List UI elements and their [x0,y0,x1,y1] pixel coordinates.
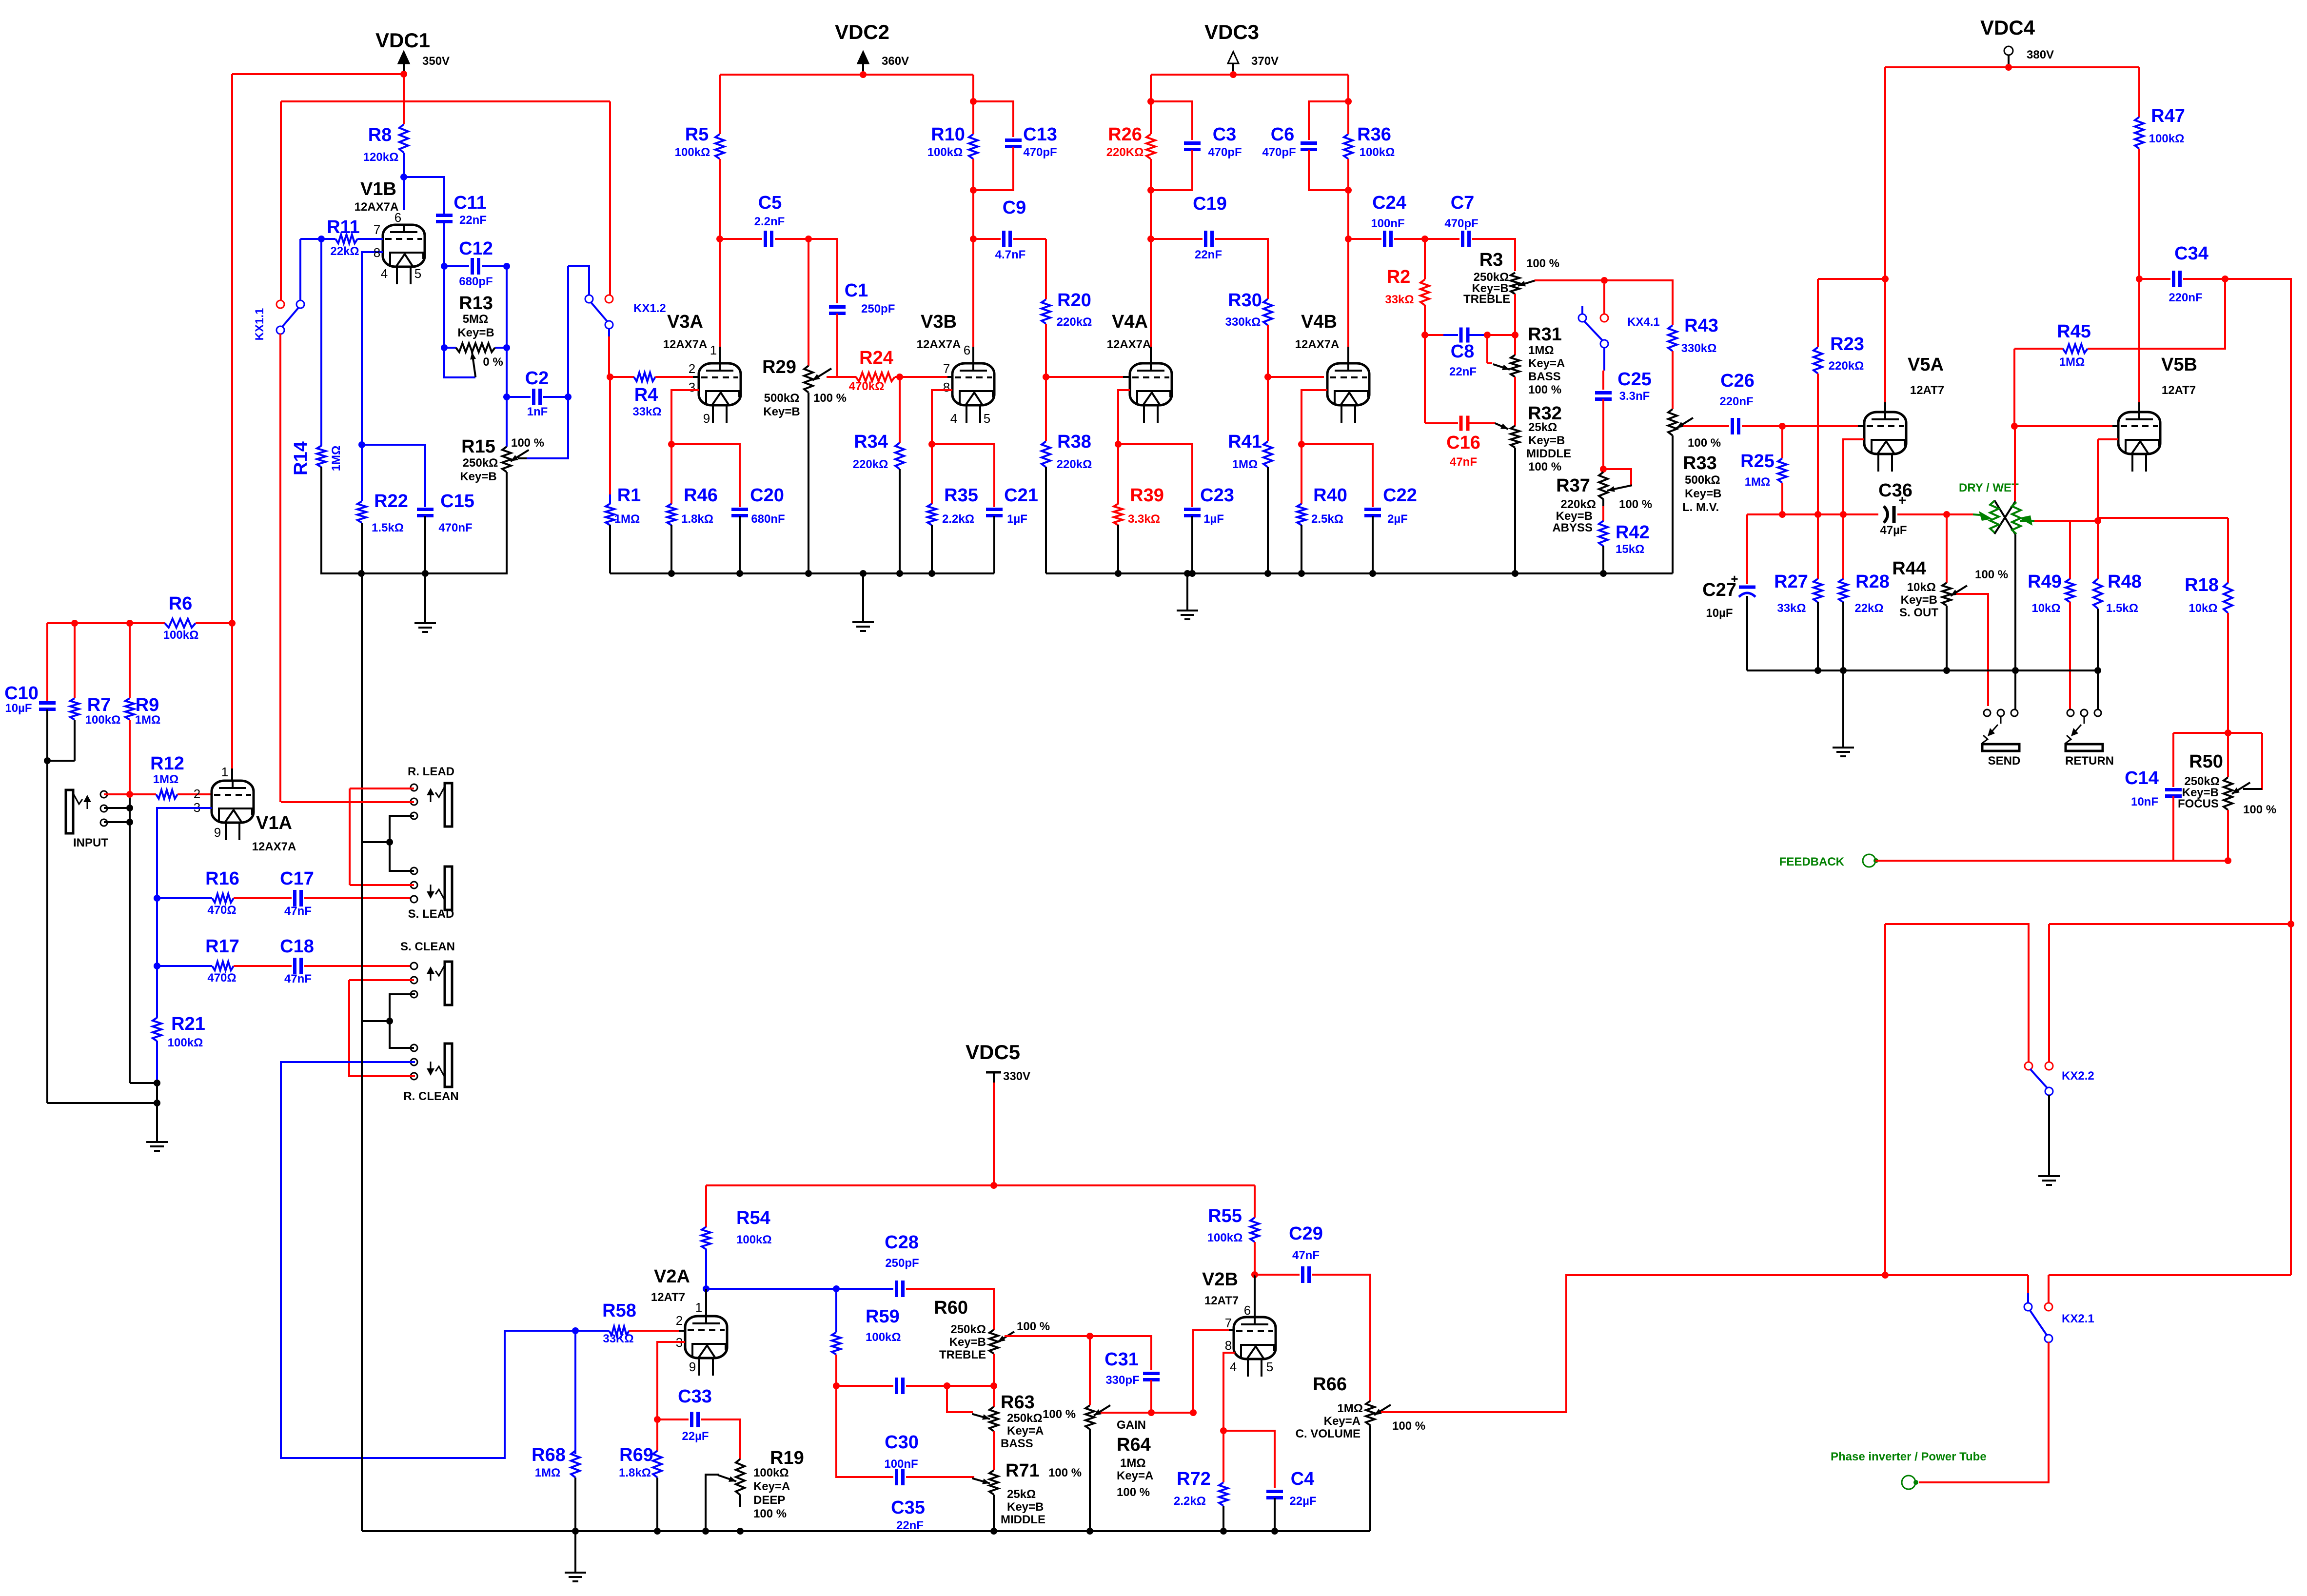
svg-text:C8: C8 [1451,341,1475,362]
svg-text:2: 2 [194,787,200,801]
svg-text:22nF: 22nF [459,214,487,227]
svg-text:100 %: 100 % [1528,460,1561,473]
svg-text:8: 8 [1225,1338,1232,1353]
svg-text:12AT7: 12AT7 [1910,384,1944,397]
svg-text:100 %: 100 % [511,436,544,450]
svg-text:MIDDLE: MIDDLE [1001,1513,1045,1526]
svg-text:100 %: 100 % [2243,803,2276,816]
svg-text:R49: R49 [2028,571,2062,592]
svg-text:DEEP: DEEP [753,1494,785,1507]
svg-text:C23: C23 [1200,485,1234,506]
svg-text:R45: R45 [2057,321,2091,342]
svg-text:220kΩ: 220kΩ [1057,315,1092,329]
svg-text:V4A: V4A [1112,312,1148,332]
svg-text:4.7nF: 4.7nF [995,248,1026,261]
svg-text:C26: C26 [1720,371,1755,391]
svg-text:RETURN: RETURN [2065,754,2114,768]
svg-text:Key=B: Key=B [949,1336,986,1349]
svg-text:220kΩ: 220kΩ [1829,359,1864,373]
svg-text:2: 2 [689,361,695,376]
svg-text:KX1.1: KX1.1 [253,308,266,341]
svg-text:470kΩ: 470kΩ [849,380,885,393]
svg-text:R30: R30 [1228,290,1262,311]
svg-text:470pF: 470pF [1262,146,1296,159]
svg-text:V1B: V1B [360,179,396,199]
svg-text:MIDDLE: MIDDLE [1526,447,1571,460]
svg-text:100 %: 100 % [1117,1486,1150,1499]
svg-text:C18: C18 [280,936,314,957]
svg-text:10kΩ: 10kΩ [2031,602,2060,615]
svg-text:6: 6 [964,343,970,357]
svg-text:5MΩ: 5MΩ [463,313,489,326]
svg-text:R. CLEAN: R. CLEAN [403,1090,458,1103]
svg-text:KX4.1: KX4.1 [1627,315,1660,329]
svg-text:L. M.V.: L. M.V. [1682,501,1719,514]
svg-text:22kΩ: 22kΩ [330,245,359,258]
svg-text:Key=B: Key=B [1007,1500,1044,1514]
svg-text:FOCUS: FOCUS [2178,797,2219,810]
svg-text:500kΩ: 500kΩ [1685,473,1720,487]
svg-text:1MΩ: 1MΩ [153,773,179,786]
svg-text:R11: R11 [327,217,360,237]
svg-text:5: 5 [1266,1360,1273,1374]
svg-text:100 %: 100 % [1392,1419,1425,1433]
svg-text:C30: C30 [885,1432,919,1453]
svg-text:100 %: 100 % [1619,498,1652,511]
svg-text:VDC4: VDC4 [1980,16,2035,39]
svg-text:100 %: 100 % [1528,383,1561,396]
svg-text:R27: R27 [1774,571,1808,592]
svg-text:12AX7A: 12AX7A [252,840,296,853]
svg-text:SEND: SEND [1988,754,2021,768]
svg-text:220nF: 220nF [2169,291,2202,304]
svg-text:100kΩ: 100kΩ [168,1036,203,1049]
svg-text:C13: C13 [1023,124,1057,145]
svg-text:C19: C19 [1193,194,1227,214]
svg-text:R10: R10 [931,124,965,145]
svg-text:330V: 330V [1003,1070,1030,1083]
svg-text:100 %: 100 % [1688,436,1721,450]
svg-text:9: 9 [703,411,710,426]
svg-text:V5A: V5A [1908,355,1944,375]
svg-text:V2A: V2A [654,1266,690,1287]
svg-text:12AX7A: 12AX7A [1107,338,1151,351]
svg-text:12AX7A: 12AX7A [663,338,708,351]
svg-text:C24: C24 [1372,193,1406,213]
svg-text:C33: C33 [678,1386,712,1407]
svg-text:2.5kΩ: 2.5kΩ [1311,512,1343,526]
svg-text:1MΩ: 1MΩ [135,713,161,727]
svg-text:KX1.2: KX1.2 [633,302,666,315]
svg-text:R9: R9 [136,695,159,715]
svg-text:C36: C36 [1878,480,1913,501]
svg-text:TREBLE: TREBLE [939,1348,986,1361]
svg-text:100 %: 100 % [1043,1408,1076,1421]
svg-text:C11: C11 [454,193,487,213]
svg-text:1nF: 1nF [527,405,548,418]
svg-text:R48: R48 [2108,571,2142,592]
svg-text:C20: C20 [750,485,784,506]
svg-text:V3A: V3A [667,312,703,332]
svg-text:C6: C6 [1271,124,1295,145]
svg-text:10nF: 10nF [2131,795,2158,808]
svg-text:R6: R6 [169,593,193,614]
svg-text:100kΩ: 100kΩ [1360,146,1395,159]
svg-text:380V: 380V [2027,48,2054,61]
svg-text:R44: R44 [1892,558,1926,579]
svg-text:R1: R1 [617,485,641,506]
svg-text:250kΩ: 250kΩ [1007,1412,1043,1425]
svg-text:47nF: 47nF [284,972,312,985]
svg-text:VDC2: VDC2 [835,20,889,43]
svg-text:47nF: 47nF [1450,455,1477,469]
svg-text:Key=B: Key=B [460,470,496,483]
svg-text:R33: R33 [1683,453,1717,473]
svg-text:R7: R7 [87,695,111,715]
svg-text:R. LEAD: R. LEAD [408,765,454,778]
svg-text:8: 8 [943,380,950,394]
svg-text:Key=B: Key=B [457,326,494,339]
svg-text:R42: R42 [1616,522,1650,543]
svg-text:350V: 350V [422,55,450,68]
svg-text:33kΩ: 33kΩ [632,405,661,418]
svg-text:R68: R68 [532,1445,566,1465]
svg-text:C7: C7 [1451,193,1475,213]
svg-text:680pF: 680pF [459,275,493,288]
svg-text:R46: R46 [684,485,718,506]
svg-text:C29: C29 [1289,1223,1323,1244]
svg-text:7: 7 [943,361,950,376]
svg-text:220nF: 220nF [1719,395,1753,408]
svg-text:12AT7: 12AT7 [1204,1294,1239,1307]
svg-text:Key=B: Key=B [1901,593,1937,607]
svg-text:R8: R8 [368,125,392,145]
svg-text:R23: R23 [1830,334,1864,355]
svg-text:BASS: BASS [1528,370,1561,383]
svg-text:R21: R21 [171,1014,205,1034]
svg-text:33kΩ: 33kΩ [1385,293,1414,306]
svg-text:FEEDBACK: FEEDBACK [1779,855,1845,868]
svg-text:VDC3: VDC3 [1204,20,1259,43]
svg-text:470nF: 470nF [438,521,472,534]
svg-text:100 %: 100 % [1017,1320,1050,1333]
svg-text:C14: C14 [2125,768,2159,788]
svg-text:33KΩ: 33KΩ [603,1332,633,1345]
svg-text:R36: R36 [1357,124,1391,145]
svg-text:250pF: 250pF [861,302,895,315]
svg-text:C28: C28 [885,1232,919,1253]
svg-text:C31: C31 [1104,1349,1139,1370]
svg-text:47µF: 47µF [1880,524,1907,537]
svg-text:100kΩ: 100kΩ [675,146,710,159]
svg-text:Key=A: Key=A [753,1480,790,1493]
svg-text:TREBLE: TREBLE [1463,293,1510,306]
svg-text:5: 5 [984,411,990,426]
svg-text:100kΩ: 100kΩ [736,1233,772,1246]
svg-text:R2: R2 [1387,267,1411,287]
svg-text:R40: R40 [1313,485,1347,506]
svg-text:R60: R60 [934,1298,968,1318]
svg-text:R59: R59 [866,1306,900,1327]
svg-text:9: 9 [689,1360,696,1374]
svg-text:Key=B: Key=B [1556,510,1593,523]
svg-text:R63: R63 [1001,1392,1035,1413]
svg-text:2µF: 2µF [1387,512,1408,526]
svg-text:1: 1 [695,1300,702,1315]
svg-text:12AX7A: 12AX7A [1295,338,1340,351]
svg-text:KX2.2: KX2.2 [2062,1069,2094,1083]
svg-text:22nF: 22nF [1449,365,1477,378]
svg-text:100kΩ: 100kΩ [163,629,199,642]
svg-text:R14: R14 [291,441,311,475]
svg-text:R43: R43 [1684,315,1718,336]
svg-text:C34: C34 [2174,243,2208,264]
svg-text:KX2.1: KX2.1 [2062,1312,2094,1325]
svg-text:Phase inverter / Power Tube: Phase inverter / Power Tube [1831,1450,1987,1463]
svg-text:100kΩ: 100kΩ [85,713,121,727]
svg-text:100 %: 100 % [1048,1466,1082,1479]
svg-text:100 %: 100 % [1975,568,2008,581]
svg-text:R28: R28 [1855,571,1890,592]
svg-text:250kΩ: 250kΩ [463,456,498,470]
svg-text:330kΩ: 330kΩ [1225,315,1261,329]
svg-text:C1: C1 [845,280,868,301]
svg-text:12AT7: 12AT7 [651,1291,685,1304]
svg-text:R4: R4 [634,385,658,405]
svg-text:470pF: 470pF [1208,146,1242,159]
svg-text:1.8kΩ: 1.8kΩ [681,512,713,526]
svg-text:C9: C9 [1003,197,1026,218]
svg-text:470Ω: 470Ω [207,971,236,985]
svg-text:1µF: 1µF [1203,512,1224,526]
svg-text:0 %: 0 % [483,355,503,369]
svg-text:1MΩ: 1MΩ [2059,355,2085,369]
svg-text:C12: C12 [459,238,493,259]
svg-text:4: 4 [950,411,957,426]
svg-text:R38: R38 [1057,432,1091,452]
svg-text:V3B: V3B [921,312,957,332]
svg-text:C5: C5 [758,193,782,213]
svg-text:500kΩ: 500kΩ [764,392,800,405]
svg-text:C22: C22 [1383,485,1417,506]
svg-text:DRY / WET: DRY / WET [1959,481,2019,494]
svg-text:R37: R37 [1556,475,1590,496]
svg-text:100nF: 100nF [1371,217,1404,230]
svg-text:1µF: 1µF [1007,512,1027,526]
svg-text:1MΩ: 1MΩ [330,446,343,472]
svg-text:7: 7 [1225,1316,1232,1330]
svg-text:Key=A: Key=A [1324,1415,1361,1428]
svg-text:R71: R71 [1006,1460,1040,1481]
svg-text:100 %: 100 % [813,392,847,405]
svg-text:1MΩ: 1MΩ [1745,475,1771,489]
svg-text:R66: R66 [1313,1374,1347,1395]
svg-text:12AX7A: 12AX7A [355,200,399,214]
svg-text:C4: C4 [1291,1469,1315,1489]
svg-text:4: 4 [1230,1360,1237,1374]
svg-text:6: 6 [1244,1303,1251,1318]
svg-text:250pF: 250pF [885,1257,919,1270]
svg-text:Key=A: Key=A [1007,1424,1044,1438]
svg-text:120kΩ: 120kΩ [363,151,399,164]
svg-text:C35: C35 [891,1497,925,1518]
svg-text:100 %: 100 % [1526,257,1559,270]
svg-text:R18: R18 [2185,575,2219,595]
svg-text:R39: R39 [1130,485,1164,506]
svg-text:R41: R41 [1228,432,1262,452]
svg-text:C10: C10 [4,683,39,704]
svg-text:250kΩ: 250kΩ [950,1323,986,1336]
svg-text:2.2kΩ: 2.2kΩ [1174,1495,1206,1508]
svg-text:10µF: 10µF [5,702,32,715]
svg-text:1: 1 [710,343,717,357]
svg-text:R47: R47 [2151,106,2185,126]
svg-text:360V: 360V [882,55,909,68]
svg-text:C16: C16 [1446,433,1480,453]
svg-text:470Ω: 470Ω [207,904,236,917]
svg-text:1MΩ: 1MΩ [535,1466,561,1479]
svg-text:Key=B: Key=B [763,405,800,418]
svg-text:10kΩ: 10kΩ [2189,602,2217,615]
svg-text:R69: R69 [619,1445,653,1465]
svg-text:R19: R19 [770,1448,804,1468]
svg-text:R22: R22 [374,491,408,512]
svg-text:VDC5: VDC5 [966,1041,1020,1064]
svg-text:10kΩ: 10kΩ [1907,581,1936,594]
svg-text:R12: R12 [150,753,184,774]
svg-text:47nF: 47nF [1292,1249,1320,1262]
svg-text:V5B: V5B [2161,355,2197,375]
svg-text:220kΩ: 220kΩ [1057,458,1092,471]
svg-text:680nF: 680nF [751,512,785,526]
svg-text:100 %: 100 % [753,1507,787,1520]
svg-text:C. VOLUME: C. VOLUME [1296,1427,1361,1440]
svg-text:9: 9 [214,825,221,840]
svg-text:1MΩ: 1MΩ [1232,458,1258,471]
svg-text:R17: R17 [205,936,239,957]
svg-text:25kΩ: 25kΩ [1528,421,1557,434]
svg-text:2: 2 [676,1313,683,1328]
svg-text:100kΩ: 100kΩ [2149,132,2185,145]
svg-text:BASS: BASS [1001,1437,1033,1450]
svg-text:22nF: 22nF [1195,248,1222,261]
svg-text:R31: R31 [1528,324,1562,345]
svg-text:R64: R64 [1117,1435,1151,1455]
svg-text:100kΩ: 100kΩ [753,1466,789,1479]
svg-text:22kΩ: 22kΩ [1854,602,1883,615]
svg-text:R55: R55 [1208,1206,1242,1226]
svg-text:6: 6 [394,210,401,225]
svg-text:C17: C17 [280,868,314,889]
svg-text:R72: R72 [1177,1469,1211,1489]
svg-text:V4B: V4B [1301,312,1337,332]
svg-text:Key=A: Key=A [1528,357,1565,370]
svg-text:S. LEAD: S. LEAD [408,907,454,921]
svg-text:R13: R13 [459,293,493,314]
svg-text:R26: R26 [1108,124,1142,145]
svg-text:470pF: 470pF [1444,217,1478,230]
svg-text:33kΩ: 33kΩ [1777,602,1806,615]
svg-text:R20: R20 [1057,290,1091,311]
svg-text:25kΩ: 25kΩ [1007,1488,1036,1501]
svg-text:3: 3 [689,380,695,394]
svg-text:22nF: 22nF [896,1519,924,1532]
svg-text:12AT7: 12AT7 [2162,384,2196,397]
svg-text:22µF: 22µF [1289,1495,1316,1508]
svg-text:330kΩ: 330kΩ [1681,342,1717,355]
svg-text:15kΩ: 15kΩ [1616,543,1644,556]
svg-text:R25: R25 [1740,451,1775,472]
svg-text:C15: C15 [440,491,474,512]
svg-text:R50: R50 [2189,751,2223,772]
svg-text:R24: R24 [859,348,893,368]
svg-text:C27: C27 [1702,580,1736,600]
svg-text:47nF: 47nF [284,905,312,918]
svg-text:V2B: V2B [1202,1269,1238,1290]
svg-text:ABYSS: ABYSS [1552,521,1593,534]
svg-text:1MΩ: 1MΩ [1528,344,1554,357]
svg-text:2.2nF: 2.2nF [754,215,785,228]
svg-text:8: 8 [374,245,380,260]
svg-text:Key=B: Key=B [1685,487,1721,500]
svg-text:1MΩ: 1MΩ [614,512,640,526]
svg-text:C3: C3 [1213,124,1237,145]
svg-text:Key=B: Key=B [1528,434,1565,447]
svg-text:1MΩ: 1MΩ [1337,1402,1363,1415]
svg-text:R16: R16 [205,868,239,889]
svg-text:100kΩ: 100kΩ [866,1331,901,1344]
svg-text:C2: C2 [525,368,549,389]
svg-text:1.8kΩ: 1.8kΩ [619,1466,651,1479]
svg-text:C25: C25 [1617,369,1652,390]
svg-text:12AX7A: 12AX7A [917,338,961,351]
svg-text:5: 5 [414,266,421,281]
svg-text:3.3nF: 3.3nF [1619,390,1650,403]
svg-text:1MΩ: 1MΩ [1120,1457,1146,1470]
svg-text:S. CLEAN: S. CLEAN [400,940,455,953]
svg-text:S. OUT: S. OUT [1899,606,1938,619]
svg-text:V1A: V1A [256,813,292,833]
svg-text:370V: 370V [1251,55,1279,68]
svg-text:1.5kΩ: 1.5kΩ [2106,602,2138,615]
svg-text:R29: R29 [762,357,796,377]
svg-text:Key=A: Key=A [1117,1469,1153,1482]
svg-text:C21: C21 [1004,485,1038,506]
svg-text:220kΩ: 220kΩ [853,458,888,471]
svg-text:2.2kΩ: 2.2kΩ [942,512,974,526]
svg-text:R54: R54 [736,1208,770,1228]
svg-text:22µF: 22µF [682,1430,709,1443]
svg-text:100nF: 100nF [884,1458,918,1471]
svg-text:R34: R34 [854,432,888,452]
svg-text:10µF: 10µF [1706,607,1733,620]
svg-text:7: 7 [374,222,380,237]
svg-text:INPUT: INPUT [73,836,108,849]
svg-text:R58: R58 [602,1300,636,1321]
svg-text:220KΩ: 220KΩ [1106,146,1144,159]
svg-text:R15: R15 [461,436,495,457]
svg-text:470pF: 470pF [1023,146,1057,159]
svg-text:100kΩ: 100kΩ [927,146,963,159]
svg-text:4: 4 [381,266,388,281]
svg-text:1: 1 [221,765,228,779]
svg-text:1.5kΩ: 1.5kΩ [372,521,404,534]
svg-text:330pF: 330pF [1105,1374,1139,1387]
svg-text:GAIN: GAIN [1117,1419,1146,1432]
svg-text:100kΩ: 100kΩ [1207,1231,1243,1244]
svg-text:VDC1: VDC1 [375,29,430,52]
svg-text:R3: R3 [1479,250,1503,270]
